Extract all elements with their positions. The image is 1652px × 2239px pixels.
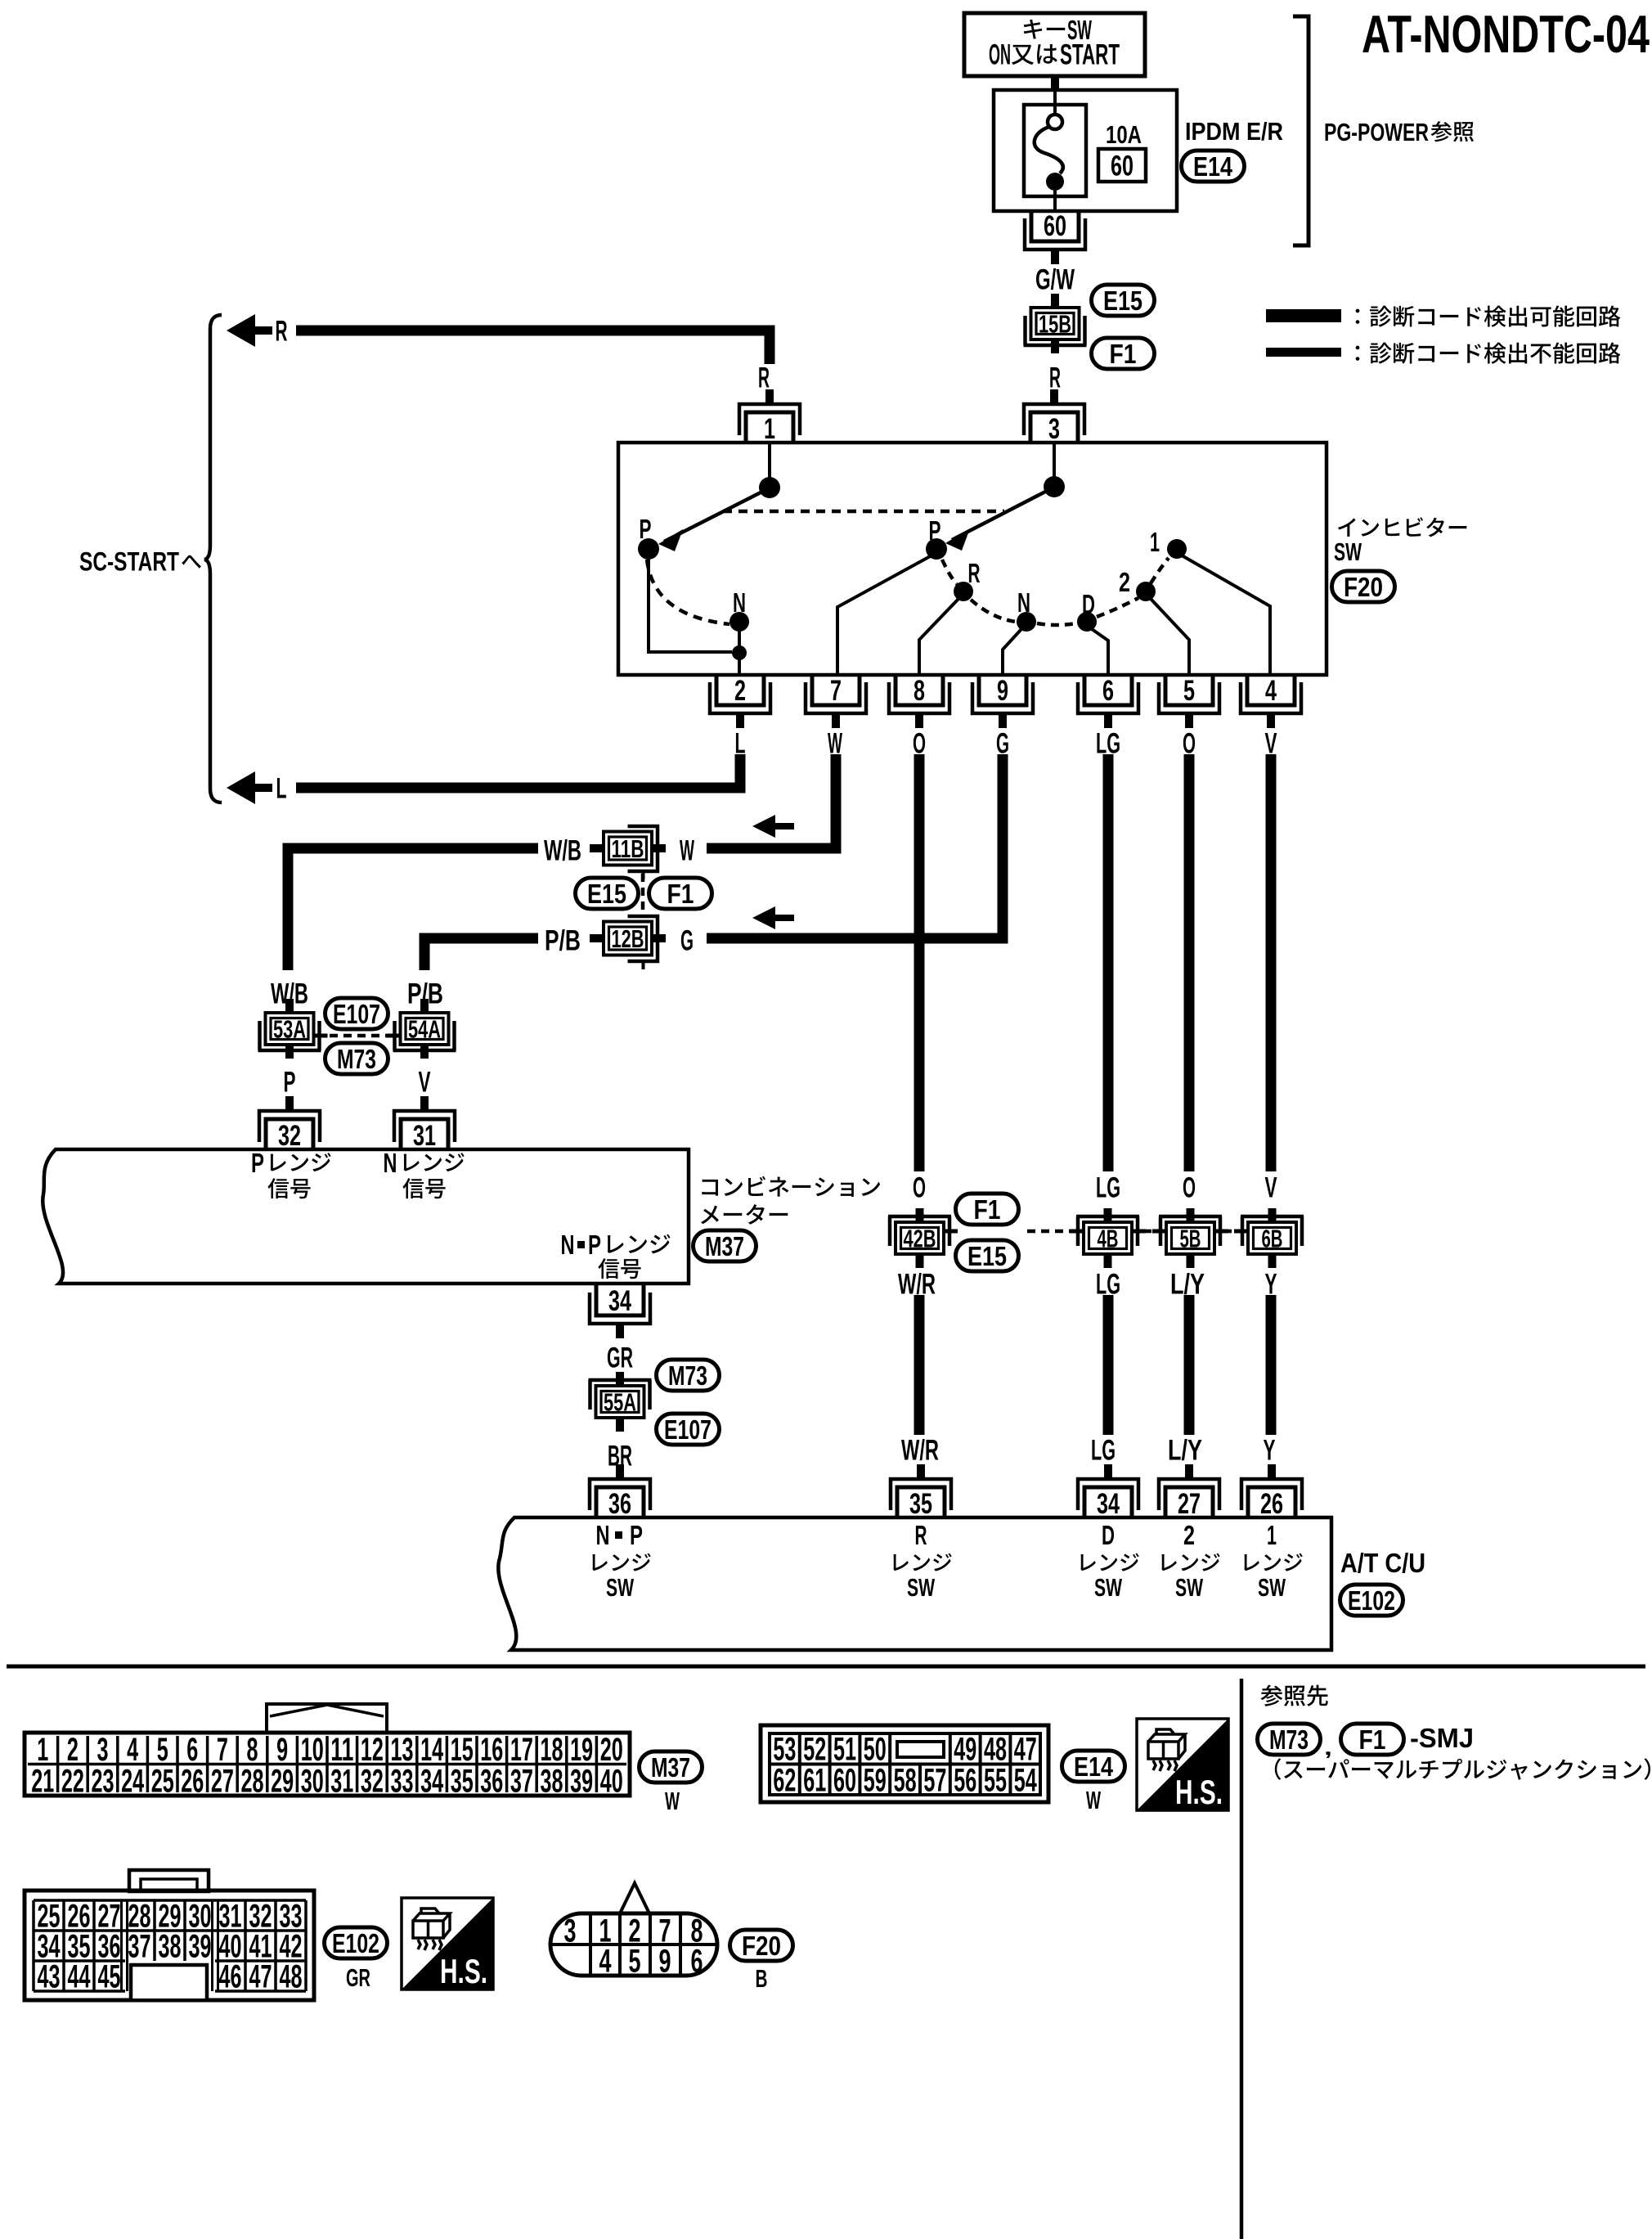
- svg-text:34: 34: [1097, 1488, 1120, 1520]
- label 2 sw renji: [1161, 1553, 1219, 1571]
- junction 4B: [1070, 1208, 1146, 1268]
- svg-text:1: 1: [764, 413, 775, 445]
- svg-text:P: P: [284, 1067, 296, 1099]
- IPDM E/R box: [994, 90, 1177, 211]
- svg-text:6: 6: [691, 1944, 703, 1980]
- wire P to pin2 contact: [649, 559, 732, 652]
- pin 26 A/T C/U: [1241, 1464, 1302, 1520]
- svg-text:IPDM E/R: IPDM E/R: [1185, 117, 1283, 146]
- svg-text:15B: 15B: [1039, 310, 1071, 339]
- dashed SMJ line 5B-6B: [1223, 1230, 1250, 1234]
- svg-text:E15: E15: [587, 879, 626, 910]
- label super multiple junction: [1275, 1758, 1650, 1779]
- svg-text:31: 31: [330, 1764, 353, 1800]
- pin 8 inhibitor: [889, 675, 949, 728]
- dashed SMJ line 42B-4B: [1027, 1230, 1076, 1234]
- junction 42B: [888, 1208, 958, 1268]
- dashed detent arc P-N left: [647, 560, 729, 624]
- pin 5 inhibitor: [1159, 675, 1219, 728]
- svg-text:20: 20: [600, 1732, 623, 1768]
- svg-text:3: 3: [564, 1913, 577, 1949]
- contact N left: [729, 612, 749, 632]
- dashed detent arc 2-1: [1151, 558, 1169, 583]
- wire 2 to pin 5: [1151, 599, 1189, 673]
- svg-text:D: D: [1102, 1521, 1115, 1551]
- svg-text:P: P: [630, 1521, 643, 1551]
- svg-text:R: R: [1049, 362, 1061, 394]
- svg-text:34: 34: [420, 1764, 443, 1800]
- connector label F20: [1332, 571, 1395, 603]
- svg-text:M37: M37: [651, 1753, 690, 1783]
- svg-text:12: 12: [361, 1732, 384, 1768]
- wire R to pin 8: [919, 599, 958, 673]
- svg-text:37: 37: [510, 1764, 533, 1800]
- svg-text:3: 3: [97, 1732, 109, 1768]
- svg-text:SW: SW: [1334, 537, 1362, 566]
- connector label F1: [649, 878, 712, 910]
- svg-text:SW: SW: [1094, 1573, 1122, 1602]
- svg-text:62: 62: [773, 1763, 796, 1799]
- label meter: [701, 1204, 788, 1225]
- svg-text:4: 4: [1265, 675, 1277, 707]
- fuse bottom terminal: [1046, 173, 1064, 191]
- svg-text:42B: 42B: [904, 1225, 936, 1253]
- label N range shingou: [402, 1178, 445, 1198]
- svg-text:PG-POWER: PG-POWER: [1324, 118, 1429, 146]
- pin 7 inhibitor: [806, 675, 866, 728]
- svg-text:28: 28: [241, 1764, 264, 1800]
- pin 31 meter: [394, 1096, 455, 1152]
- svg-text:V: V: [1265, 1172, 1277, 1204]
- svg-text:5: 5: [1183, 675, 1195, 707]
- svg-text:D: D: [1082, 590, 1095, 620]
- pin 2 inhibitor: [710, 675, 770, 728]
- svg-text:61: 61: [803, 1763, 826, 1799]
- pin 60 IPDM: [1025, 210, 1085, 264]
- dashed arm tie: [723, 510, 1004, 514]
- arrow to SC-START R: [227, 314, 272, 347]
- switch arm 3 with arrowhead: [945, 489, 1050, 551]
- connector label E107: [325, 998, 388, 1030]
- svg-text:4: 4: [599, 1944, 613, 1980]
- wire V pin4 down: [1266, 754, 1277, 1171]
- svg-text:-SMJ: -SMJ: [1410, 1724, 1474, 1754]
- key switch box: [964, 13, 1145, 76]
- junction 55A: [589, 1372, 652, 1432]
- wire O pin5 down: [1184, 754, 1195, 1171]
- label P range renji: [271, 1153, 331, 1171]
- svg-text:32: 32: [361, 1764, 384, 1800]
- contact N mid: [1017, 612, 1036, 632]
- connector label F1: [1341, 1724, 1404, 1756]
- label NP range dot: [577, 1241, 585, 1248]
- junction 5B: [1152, 1208, 1228, 1268]
- wire W/R down: [914, 1295, 925, 1435]
- connector label F1: [956, 1194, 1019, 1225]
- reference divider: [1240, 1679, 1244, 2239]
- contact 1: [1167, 539, 1187, 559]
- connector label M73: [657, 1360, 720, 1392]
- svg-text:SW: SW: [1175, 1573, 1203, 1602]
- combination meter box M37: [43, 1149, 689, 1284]
- wire W pin7 to 11B: [707, 754, 836, 848]
- svg-text:E102: E102: [1348, 1586, 1395, 1616]
- connector label E107: [657, 1414, 720, 1445]
- dashed detent arc R-N: [971, 600, 1016, 622]
- svg-text:1: 1: [37, 1732, 48, 1768]
- label P range shingou: [267, 1178, 310, 1198]
- pin 3 inhibitor: [1024, 389, 1084, 445]
- wire pin1 to contact: [768, 443, 771, 479]
- label NP sw renji: [592, 1553, 650, 1571]
- pin 27 A/T C/U: [1159, 1464, 1219, 1520]
- connector label M37: [640, 1751, 703, 1783]
- legend text detectable: [1356, 305, 1621, 326]
- arrow on W wire: [752, 815, 794, 838]
- svg-text:37: 37: [128, 1929, 151, 1965]
- svg-text:O: O: [1183, 1172, 1196, 1204]
- label R sw renji: [893, 1553, 951, 1571]
- svg-text:56: 56: [954, 1763, 976, 1799]
- fuse top terminal: [1048, 115, 1062, 129]
- svg-text:F1: F1: [667, 879, 694, 910]
- svg-text:R: R: [915, 1521, 927, 1551]
- svg-text:1: 1: [1267, 1521, 1277, 1551]
- svg-text:2: 2: [734, 675, 746, 707]
- arrow on G wire: [752, 906, 794, 929]
- svg-text:60: 60: [833, 1763, 856, 1799]
- svg-text:57: 57: [923, 1763, 946, 1799]
- label 1 sw renji: [1244, 1553, 1302, 1571]
- junction 53A: [258, 999, 328, 1059]
- svg-text:G/W: G/W: [1035, 264, 1075, 296]
- pin 36 A/T C/U: [590, 1464, 650, 1520]
- svg-text:38: 38: [159, 1929, 182, 1965]
- svg-text:6: 6: [186, 1732, 198, 1768]
- switch arm 1 with arrowhead: [658, 490, 765, 551]
- svg-text:N: N: [561, 1230, 575, 1261]
- wire O pin8 down: [914, 754, 925, 1171]
- svg-text:W: W: [665, 1787, 680, 1815]
- connector label E14: [1182, 151, 1245, 182]
- connector label E14: [1062, 1751, 1125, 1783]
- svg-text:55: 55: [984, 1763, 1007, 1799]
- fuse number box: [1098, 149, 1146, 182]
- svg-text:P: P: [640, 515, 652, 545]
- svg-text:18: 18: [541, 1732, 563, 1768]
- svg-text:31: 31: [413, 1120, 436, 1152]
- svg-text:L: L: [276, 773, 287, 805]
- svg-text:47: 47: [249, 1959, 272, 1995]
- wire G pin9 to 12B: [707, 754, 1003, 938]
- svg-text:P/B: P/B: [545, 925, 581, 957]
- svg-text:39: 39: [570, 1764, 593, 1800]
- svg-text:N: N: [733, 588, 746, 618]
- wire LG down: [1103, 1295, 1114, 1435]
- wire LG pin6 down: [1103, 754, 1114, 1171]
- label NP range shingou: [598, 1258, 640, 1279]
- label combination meter: [702, 1176, 880, 1197]
- svg-text:N: N: [384, 1149, 397, 1179]
- svg-text:GR: GR: [346, 1963, 370, 1992]
- svg-text:36: 36: [608, 1488, 631, 1520]
- svg-text:34: 34: [608, 1285, 631, 1317]
- label NP sw dot: [615, 1531, 622, 1539]
- junction 54A: [387, 999, 456, 1059]
- connector label E15: [956, 1240, 1019, 1272]
- brace SC-START: [204, 315, 222, 803]
- connector label M73: [325, 1043, 388, 1075]
- svg-text:P: P: [588, 1230, 601, 1261]
- contact R: [954, 582, 973, 601]
- contact D: [1077, 612, 1097, 632]
- svg-text:5B: 5B: [1180, 1225, 1201, 1253]
- svg-text:38: 38: [541, 1764, 563, 1800]
- svg-text:ON: ON: [989, 39, 1011, 71]
- svg-text:M73: M73: [668, 1361, 707, 1392]
- pin 9 inhibitor: [972, 675, 1033, 728]
- connector face M37: [25, 1704, 630, 1800]
- svg-text:6B: 6B: [1262, 1225, 1283, 1253]
- svg-text:23: 23: [92, 1764, 114, 1800]
- svg-text:5: 5: [629, 1944, 641, 1980]
- svg-text:AT-NONDTC-04: AT-NONDTC-04: [1362, 4, 1650, 64]
- svg-text:26: 26: [1260, 1488, 1283, 1520]
- contact 2: [1136, 582, 1156, 601]
- svg-text:SW: SW: [907, 1573, 935, 1602]
- svg-text:17: 17: [510, 1732, 533, 1768]
- svg-text:E107: E107: [333, 1000, 380, 1030]
- svg-text:10A: 10A: [1106, 120, 1142, 149]
- wire P mid to pin 7: [837, 555, 933, 673]
- svg-text:5: 5: [157, 1732, 168, 1768]
- svg-text:,: ,: [1324, 1737, 1332, 1760]
- svg-text:Y: Y: [1264, 1435, 1276, 1467]
- label sanshou: [1430, 121, 1474, 142]
- svg-text:SW: SW: [1258, 1573, 1286, 1602]
- svg-text:E107: E107: [664, 1415, 712, 1445]
- label mata-wa: [1012, 44, 1057, 65]
- svg-text:55A: 55A: [604, 1388, 636, 1417]
- svg-text:LG: LG: [1091, 1435, 1116, 1467]
- dashed SMJ line 4B-5B: [1143, 1230, 1169, 1234]
- svg-text:30: 30: [301, 1764, 324, 1800]
- svg-text:24: 24: [121, 1764, 144, 1800]
- label NP range renji: [608, 1234, 671, 1254]
- wire 1 to pin 4: [1182, 555, 1270, 673]
- wire N to pin2 contact: [738, 631, 741, 645]
- junction 12B: [590, 916, 666, 969]
- svg-text:SW: SW: [606, 1573, 634, 1602]
- svg-text:R: R: [758, 362, 770, 394]
- svg-text:40: 40: [600, 1764, 623, 1800]
- svg-text:10: 10: [301, 1732, 324, 1768]
- svg-text:V: V: [419, 1067, 431, 1099]
- svg-text:59: 59: [864, 1763, 887, 1799]
- svg-text:27: 27: [211, 1764, 234, 1800]
- svg-text:R: R: [276, 316, 288, 348]
- svg-text:N: N: [1017, 588, 1030, 618]
- svg-text:3: 3: [1048, 413, 1060, 445]
- connector face E102: [25, 1870, 314, 2000]
- fuse element S-curve: [1035, 127, 1063, 173]
- contact P pin2: [732, 645, 747, 660]
- svg-text:26: 26: [181, 1764, 204, 1800]
- svg-text:58: 58: [894, 1763, 917, 1799]
- svg-text:F1: F1: [1110, 339, 1137, 370]
- fuse box: [1024, 105, 1086, 196]
- svg-text:29: 29: [271, 1764, 294, 1800]
- wire R to pin 1: [296, 330, 770, 364]
- wire into fuse: [1053, 91, 1057, 115]
- svg-text:GR: GR: [607, 1342, 633, 1374]
- svg-text:11: 11: [330, 1732, 353, 1768]
- svg-text:8: 8: [914, 675, 925, 707]
- svg-text:53A: 53A: [273, 1015, 306, 1044]
- pin 32 meter: [259, 1096, 320, 1152]
- svg-text:35: 35: [451, 1764, 474, 1800]
- connector label E15: [576, 878, 639, 910]
- wire contact to pin 2: [738, 659, 741, 673]
- svg-text:B: B: [756, 1964, 768, 1993]
- svg-text:LG: LG: [1096, 1172, 1120, 1204]
- svg-text:L: L: [735, 728, 746, 760]
- pin 34 meter: [590, 1285, 650, 1338]
- legend text undetectable: [1356, 342, 1621, 363]
- svg-text:E15: E15: [967, 1242, 1007, 1272]
- svg-text:46: 46: [219, 1959, 242, 1995]
- svg-text:E14: E14: [1193, 152, 1232, 182]
- svg-text:19: 19: [570, 1732, 593, 1768]
- contact common 3: [1044, 476, 1065, 497]
- connector label F1: [1092, 338, 1155, 370]
- svg-text:22: 22: [61, 1764, 84, 1800]
- svg-text:60: 60: [1044, 210, 1066, 242]
- svg-text:21: 21: [31, 1764, 54, 1800]
- inhibitor switch box: [618, 443, 1327, 675]
- A/T C/U box E102: [498, 1517, 1331, 1650]
- dashed detent arc N-D: [1037, 623, 1076, 625]
- svg-text:L/Y: L/Y: [1168, 1435, 1202, 1467]
- connector face F20: [550, 1883, 717, 1980]
- svg-text:M73: M73: [1269, 1725, 1309, 1756]
- legend thick bar: [1266, 309, 1341, 322]
- wire W/B to 53A: [288, 848, 538, 970]
- svg-text:60: 60: [1111, 151, 1134, 182]
- svg-text:14: 14: [420, 1732, 443, 1768]
- svg-text:START: START: [1060, 39, 1120, 71]
- svg-text:E102: E102: [332, 1929, 379, 1959]
- svg-text:44: 44: [68, 1959, 91, 1995]
- wire key SW to fuse: [1051, 76, 1059, 91]
- svg-text:1: 1: [1150, 528, 1160, 558]
- label references: [1260, 1685, 1327, 1706]
- svg-text:W: W: [1086, 1786, 1101, 1814]
- svg-text:R: R: [968, 559, 981, 589]
- svg-text:54A: 54A: [408, 1015, 441, 1044]
- H.S. icon E102: [402, 1898, 493, 1990]
- svg-text:43: 43: [38, 1959, 61, 1995]
- svg-text:H.S.: H.S.: [440, 1952, 487, 1990]
- svg-text:A/T C/U: A/T C/U: [1340, 1549, 1425, 1579]
- wire pin3 to contact: [1053, 443, 1056, 478]
- svg-text:9: 9: [997, 675, 1008, 707]
- svg-text:11B: 11B: [612, 834, 644, 863]
- svg-text:13: 13: [391, 1732, 414, 1768]
- wire Y down: [1266, 1295, 1277, 1435]
- svg-text:33: 33: [391, 1764, 414, 1800]
- svg-text:H.S.: H.S.: [1175, 1773, 1223, 1811]
- svg-text:F20: F20: [742, 1931, 781, 1962]
- junction 6B: [1234, 1208, 1304, 1268]
- svg-text:2: 2: [67, 1732, 79, 1768]
- connector label E15: [1092, 285, 1155, 317]
- label key SW: [1024, 20, 1065, 39]
- H.S. icon E14: [1137, 1719, 1228, 1811]
- svg-text:12B: 12B: [612, 924, 644, 953]
- svg-text:15: 15: [451, 1732, 474, 1768]
- connector label F20: [730, 1930, 793, 1962]
- wire P/B to 54A: [424, 938, 538, 970]
- svg-text:7: 7: [217, 1732, 228, 1768]
- svg-text:32: 32: [278, 1120, 301, 1152]
- arrow to SC-START L: [227, 771, 272, 804]
- svg-text:36: 36: [480, 1764, 503, 1800]
- wire fuse to box edge: [1053, 191, 1057, 211]
- label N range renji: [404, 1153, 465, 1171]
- svg-text:25: 25: [151, 1764, 174, 1800]
- label inhibitor: [1338, 517, 1466, 537]
- connector label E102: [1340, 1585, 1403, 1616]
- wire D to pin 6: [1092, 629, 1108, 673]
- contact P mid: [926, 538, 947, 560]
- svg-text:39: 39: [189, 1929, 212, 1965]
- svg-text:E15: E15: [1103, 286, 1142, 317]
- svg-text:48: 48: [280, 1959, 303, 1995]
- legend thin bar: [1266, 348, 1341, 357]
- svg-text:54: 54: [1014, 1763, 1037, 1799]
- wire L from pin 2: [296, 754, 740, 788]
- connector label M73: [1258, 1724, 1321, 1756]
- svg-text:O: O: [913, 1172, 926, 1204]
- reference bracket: [1293, 16, 1309, 245]
- svg-text:9: 9: [659, 1944, 671, 1980]
- svg-text:M73: M73: [337, 1045, 376, 1075]
- wire L/Y down: [1184, 1295, 1195, 1435]
- svg-text:SC-START: SC-START: [79, 547, 179, 577]
- svg-text:N: N: [596, 1521, 610, 1551]
- svg-text:W/R: W/R: [901, 1435, 939, 1467]
- svg-text:W: W: [680, 835, 694, 867]
- svg-text:M37: M37: [705, 1232, 744, 1262]
- junction 15B: [1024, 294, 1087, 353]
- svg-text:2: 2: [1183, 1521, 1195, 1551]
- dashed detent arc P-R: [942, 560, 957, 584]
- svg-text:45: 45: [98, 1959, 121, 1995]
- connector label E102: [325, 1927, 388, 1959]
- svg-text:F20: F20: [1344, 573, 1383, 603]
- svg-text:W/B: W/B: [544, 835, 581, 867]
- svg-text:35: 35: [909, 1488, 932, 1520]
- svg-text:27: 27: [1178, 1488, 1201, 1520]
- svg-text:P: P: [251, 1149, 264, 1179]
- pin 1 inhibitor: [739, 389, 800, 445]
- svg-text:E14: E14: [1074, 1752, 1113, 1783]
- svg-text:G: G: [680, 925, 694, 957]
- contact common 1: [759, 477, 780, 498]
- pin 35 A/T C/U: [891, 1464, 951, 1520]
- label D sw renji: [1080, 1553, 1138, 1571]
